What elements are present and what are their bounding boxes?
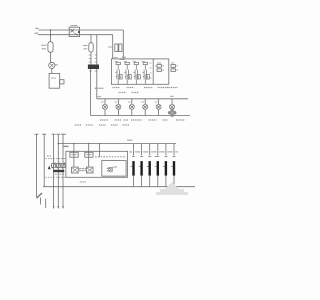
button SB stub wire	[55, 64, 58, 66]
bus L1	[39, 29, 124, 31]
supply line E	[62, 134, 64, 206]
cabinet comp box4	[86, 167, 93, 173]
cabinet comp box3 marks	[72, 168, 77, 172]
supply line B	[43, 134, 45, 187]
wire: drop from L1 right end x=123.3	[122, 30, 124, 59]
cabinet comp box1	[70, 152, 78, 157]
bus W1 label	[63, 145, 69, 147]
breaker QF3	[146, 144, 154, 187]
bus L1 left terminal label	[35, 27, 38, 29]
bus L2	[38, 34, 113, 36]
CT arrow C	[52, 162, 55, 168]
device box QS	[49, 73, 60, 88]
wire: drop from L2 at x=90	[90, 35, 92, 43]
cabinet wire3	[99, 144, 101, 157]
snubber RC1 capacitor	[157, 69, 161, 72]
text row under relay box line1	[95, 87, 178, 90]
snubber RC2 side marks	[176, 66, 178, 70]
PE bus	[43, 186, 195, 188]
cabinet wire2	[88, 144, 90, 168]
CT phase marker triangle	[48, 166, 51, 170]
terminal bar XT	[88, 65, 99, 70]
button SB circle	[49, 62, 55, 68]
relay box partition	[152, 59, 154, 84]
fuse left label	[108, 46, 112, 48]
relay column R1	[115, 61, 123, 84]
stub below PE at x45.7	[45, 199, 47, 208]
snubber RC2 resistor	[171, 65, 175, 68]
contactor coil KM label	[41, 45, 47, 49]
terminal bar XT label below	[89, 70, 98, 72]
arrow tip C	[53, 206, 55, 209]
relay column R3	[133, 61, 141, 84]
cabinet center text cluster	[79, 169, 86, 171]
contactor coil KM	[48, 42, 53, 53]
terminal block label	[54, 173, 64, 175]
meter PJ label	[71, 25, 78, 27]
breakers	[129, 144, 178, 187]
junction L2/x50.5	[50, 34, 52, 36]
cabinet bottom label	[80, 181, 87, 183]
wire KM to SB	[50, 52, 52, 62]
device box QS side tab	[60, 80, 64, 84]
relay column R4	[142, 61, 150, 84]
breaker QF4	[154, 144, 162, 187]
supply arrows bottom	[53, 206, 64, 209]
lamp HL4	[141, 99, 148, 116]
arrow tip E	[62, 206, 64, 209]
fuse FU2	[119, 44, 122, 52]
lamps	[101, 99, 175, 116]
arrow tip D	[57, 206, 59, 209]
inner right column marks	[150, 63, 152, 78]
snubber RC1 label	[157, 62, 161, 64]
wire KA down	[90, 52, 92, 65]
watermark flower icon	[168, 109, 176, 117]
junction bus/fu1	[73, 143, 74, 144]
wire SB to box	[51, 69, 53, 74]
fuse label	[114, 58, 125, 60]
meter box PJ on buses	[69, 27, 79, 36]
wire XT down to lamp rail	[96, 69, 98, 99]
wire: drop from L1 at x=50.5	[50, 30, 52, 42]
fuse FU1	[115, 44, 118, 52]
supply line E tick	[61, 133, 66, 135]
cabinet comp box3	[72, 167, 79, 173]
lamp rail top	[97, 98, 188, 100]
junction bus/meter	[99, 143, 100, 144]
watermark pyramid	[156, 182, 188, 195]
text row under relay box line2	[119, 92, 140, 94]
dashed partition	[95, 156, 126, 158]
meter PJ junction dot	[78, 31, 80, 33]
meter cross box	[109, 167, 113, 171]
device box QS inner mark	[51, 77, 56, 79]
supply line B tick	[42, 133, 46, 135]
lamp HL1	[101, 99, 108, 116]
button SB cross marks	[50, 64, 53, 67]
relay group box	[111, 59, 168, 84]
lamp return rail bottom	[91, 115, 191, 117]
bus L2 left terminal label	[35, 32, 38, 34]
relay coil KA label	[83, 45, 88, 48]
supply line A tick	[35, 133, 39, 135]
snubber RC2 label	[171, 62, 174, 64]
relay coil KA	[89, 43, 93, 52]
CT box C	[52, 164, 56, 168]
bus W1 junction	[58, 143, 60, 145]
snubber RC2 wire	[172, 67, 174, 69]
breaker QF2	[137, 144, 145, 187]
supply line C	[53, 134, 55, 206]
wire: drop from L2 at x=96.8	[96, 35, 98, 65]
rail right tiny label	[170, 95, 174, 97]
cabinet comp box2	[85, 152, 93, 157]
terminal dark block	[53, 170, 64, 172]
meter marks	[107, 167, 117, 171]
breaker QF6	[170, 144, 178, 187]
lamp HL2	[114, 99, 121, 116]
snubber RC2 capacitor	[171, 69, 175, 72]
lamp HL6	[170, 99, 175, 116]
knife switch QS1 blade	[37, 193, 43, 198]
bus W1	[58, 143, 176, 145]
CT arrow D	[57, 162, 60, 168]
CT box D	[56, 164, 60, 168]
supply line D	[57, 134, 59, 206]
bus W2 label	[127, 139, 133, 141]
snubber RC1 side marks	[155, 66, 164, 70]
meter PJ inner marks	[71, 29, 79, 36]
wire: drop from L2 right end x=112.7	[112, 35, 114, 59]
CT box E	[61, 164, 65, 168]
contact ticks on x96.8 wire	[95, 55, 97, 62]
supply line D tick	[56, 133, 60, 135]
meter box	[102, 161, 126, 177]
CT arrow E	[62, 162, 65, 168]
metering dashed enclosure bottom	[46, 176, 66, 178]
relay group box label	[122, 56, 126, 58]
text row above supply	[75, 124, 130, 126]
junction L1/x50.5	[50, 29, 52, 31]
comp box2 inner mark	[86, 154, 92, 156]
cabinet wire1	[73, 144, 75, 168]
cabinet comp box4 marks	[87, 168, 92, 172]
lamp HL3	[128, 99, 135, 116]
supply line C tick	[52, 133, 56, 135]
relay column R2	[124, 61, 132, 84]
lamp HL5	[155, 99, 162, 116]
breaker QF5	[162, 144, 170, 187]
knife switch QS1 stub	[40, 198, 42, 205]
text row under lamp rail	[100, 119, 185, 121]
snubber RC1 resistor	[157, 65, 161, 68]
metering dashed enclosure top	[46, 158, 66, 160]
cabinet box	[66, 151, 128, 177]
comp box1 inner mark	[71, 154, 77, 156]
breaker QF1	[129, 144, 137, 187]
contact ticks on x90 wire	[89, 55, 91, 62]
wire XT down to lamp return rail	[90, 69, 92, 116]
CT cluster label	[47, 155, 51, 157]
junction bus/fu2	[88, 143, 89, 144]
lamp rail top left label	[98, 96, 102, 98]
supply line A	[36, 134, 38, 197]
